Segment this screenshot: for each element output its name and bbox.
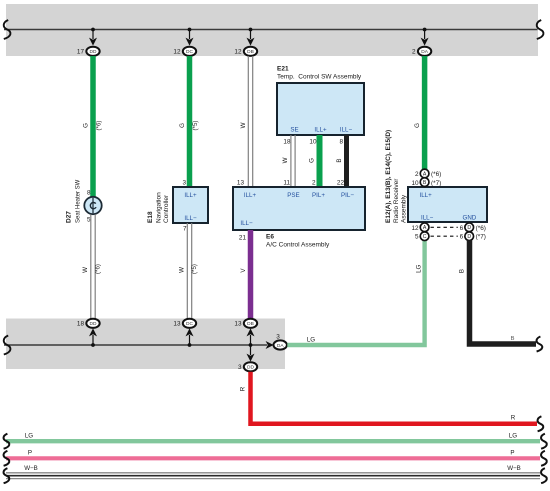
svg-text:18: 18 [77, 321, 85, 328]
connector 3 DD (bottom of band) [238, 362, 257, 371]
svg-text:ILL+: ILL+ [244, 192, 257, 199]
wire G from 12 DC to E18 pin 3 [187, 56, 193, 187]
svg-text:DD: DD [247, 365, 254, 371]
svg-text:G: G [179, 123, 186, 128]
svg-text:12: 12 [411, 225, 419, 232]
svg-text:13: 13 [237, 180, 245, 187]
svg-text:DA: DA [277, 343, 284, 349]
node junction dot tap1 [91, 28, 95, 32]
node junction dot lower tap2 [188, 343, 192, 347]
LG right break squiggle [541, 434, 547, 449]
svg-text:3: 3 [182, 180, 186, 187]
svg-text:Navigation: Navigation [156, 192, 163, 223]
svg-text:R: R [511, 415, 516, 422]
radio pin circle D (pin 6, *6) [460, 223, 486, 232]
bus wire P (bottom) [6, 456, 540, 460]
radio pin circle C (pin 5) [415, 232, 429, 241]
svg-text:DB: DB [247, 49, 254, 55]
wire B from radio GND to right [470, 240, 537, 344]
wire R right break squiggle [538, 416, 544, 431]
radio pin circle D (pin 6, *7) [460, 232, 486, 241]
tap4 arrow to connector [421, 30, 429, 46]
svg-text:5: 5 [415, 234, 419, 241]
svg-text:C: C [423, 234, 427, 240]
top bus left break squiggle [4, 20, 11, 39]
temp control switch assembly E21 [277, 66, 364, 136]
svg-text:ILL−: ILL− [240, 220, 253, 227]
svg-text:(*6): (*6) [476, 225, 486, 232]
svg-text:DA: DA [421, 49, 428, 55]
svg-text:(*7): (*7) [431, 180, 441, 187]
wire B right break squiggle [537, 337, 543, 352]
svg-text:(*5): (*5) [191, 264, 198, 274]
wire V from E6 pin 21 to 13 DB [248, 230, 254, 319]
svg-text:G: G [83, 123, 90, 128]
node junction dot lower tap1 [91, 343, 95, 347]
svg-text:DC: DC [186, 321, 193, 327]
P right break squiggle [541, 451, 547, 466]
svg-text:ILL+: ILL+ [184, 192, 197, 199]
svg-text:PSE: PSE [287, 192, 299, 199]
radio pin circle A (pin 12) [411, 223, 428, 232]
top bus line [4, 29, 538, 31]
svg-text:LG: LG [25, 433, 33, 440]
navigation controller E18 [173, 187, 208, 223]
radio pin circle A (pin 2) [415, 169, 441, 178]
lower bus right arrow to connector [266, 341, 274, 349]
connector 12 DB (top) [234, 47, 257, 56]
connector 13 DC (lower) [173, 319, 196, 328]
E18 ref label [147, 192, 170, 223]
svg-text:W: W [82, 267, 89, 273]
svg-text:D27: D27 [66, 211, 73, 223]
svg-text:17: 17 [77, 49, 85, 56]
tap3 arrow to connector [247, 30, 255, 46]
lower harness bus band [6, 319, 285, 370]
svg-text:18: 18 [283, 139, 291, 146]
A/C control assembly E6 [233, 187, 365, 230]
node junction dot lower tap3 [249, 343, 253, 347]
top bus right break squiggle [537, 20, 544, 39]
wire W from E21 SE to E6 PSE [291, 135, 295, 187]
svg-text:LG: LG [307, 337, 315, 344]
svg-text:11: 11 [283, 180, 290, 187]
svg-text:Controller: Controller [163, 194, 170, 223]
svg-text:G: G [309, 158, 316, 163]
svg-text:B: B [511, 336, 515, 342]
svg-text:DC: DC [186, 49, 193, 55]
lower bus line [4, 344, 267, 346]
svg-text:13: 13 [173, 321, 181, 328]
wire W from E18 pin 7 to 13 DC [187, 223, 191, 319]
E6 ref label [266, 234, 330, 249]
svg-text:DD: DD [90, 321, 97, 327]
wire LG from 3 DA to radio ILL- [287, 240, 424, 346]
svg-text:E6: E6 [266, 234, 274, 241]
dashed link ILL- to GND row1 [431, 226, 458, 228]
svg-text:G: G [414, 123, 421, 128]
svg-text:21: 21 [239, 235, 247, 242]
svg-text:R: R [240, 386, 247, 391]
svg-text:8: 8 [339, 139, 343, 146]
node junction dot tap4 [423, 28, 427, 32]
svg-text:Temp. Control SW Assembly: Temp. Control SW Assembly [277, 74, 362, 81]
radio ref label [385, 130, 408, 223]
bus wire LG (bottom) [6, 439, 540, 443]
svg-text:DB: DB [247, 321, 254, 327]
tap1 arrow to connector [89, 30, 97, 46]
svg-text:3: 3 [276, 334, 280, 341]
lower tap2 arrow to connector [186, 328, 194, 345]
svg-text:E12(A), E13(B), E14(C), E15(D): E12(A), E13(B), E14(C), E15(D) [385, 130, 392, 223]
W-B left break squiggle [4, 468, 10, 483]
radio pin circle B (pin 10) [411, 178, 441, 187]
lower bus left break squiggle [4, 336, 11, 355]
svg-text:ILL−: ILL− [340, 127, 353, 134]
svg-text:PIL+: PIL+ [312, 192, 325, 199]
wire G from 17 DD to D27 pin 8 [90, 56, 96, 197]
connector 3 DA (right of band) [274, 334, 287, 350]
svg-text:10: 10 [411, 180, 419, 187]
LG left break squiggle [4, 434, 10, 449]
svg-text:Assembly: Assembly [401, 194, 408, 223]
svg-text:13: 13 [234, 321, 242, 328]
connector 13 DB (lower) [234, 319, 257, 328]
svg-text:DD: DD [90, 49, 97, 55]
svg-text:22: 22 [337, 180, 345, 187]
svg-text:12: 12 [173, 49, 181, 56]
svg-text:W−B: W−B [24, 465, 38, 472]
svg-text:E18: E18 [147, 211, 154, 223]
seat heater switch D27 [84, 197, 101, 214]
wire G from E21 ILL+ to E6 PIL+ [317, 135, 323, 187]
node junction dot tap3 [249, 28, 253, 32]
svg-text:ILL+: ILL+ [314, 127, 327, 134]
svg-text:Seat Heater SW: Seat Heater SW [76, 179, 82, 223]
wire R from 3 DD to right edge [251, 372, 538, 424]
radio receiver assembly box [408, 187, 487, 222]
lower tap3 arrow down to connector [247, 345, 255, 362]
svg-text:A/C Control Assembly: A/C Control Assembly [266, 242, 330, 249]
wire G from 2 DA to radio ILL+ [422, 56, 428, 187]
svg-text:GND: GND [463, 215, 477, 222]
svg-text:D: D [467, 225, 471, 231]
svg-text:W: W [282, 157, 289, 163]
lower tap3 arrow up to connector [247, 328, 255, 345]
wire W from 12 DB to E6 pin 13 [248, 56, 252, 187]
W-B right break squiggle [541, 468, 547, 483]
svg-text:2: 2 [312, 180, 316, 187]
svg-text:E21: E21 [277, 66, 289, 73]
svg-text:LG: LG [509, 433, 517, 440]
svg-text:7: 7 [183, 226, 187, 233]
svg-text:V: V [240, 268, 247, 273]
wire W from D27 pin 5 to 18 DD [91, 214, 95, 318]
svg-text:PIL−: PIL− [341, 192, 354, 199]
dashed link ILL- to GND row2 [431, 235, 458, 237]
P left break squiggle [4, 451, 10, 466]
svg-text:P: P [28, 450, 32, 457]
svg-text:(*6): (*6) [431, 171, 441, 178]
svg-text:B: B [423, 180, 427, 186]
svg-text:A: A [423, 171, 427, 177]
svg-text:10: 10 [309, 139, 317, 146]
svg-text:W: W [240, 122, 247, 128]
svg-text:2: 2 [412, 49, 416, 56]
svg-text:3: 3 [238, 364, 242, 371]
svg-text:P: P [510, 450, 514, 457]
svg-text:B: B [459, 269, 466, 273]
bus wire W-B (bottom) [6, 473, 540, 479]
svg-text:(*5): (*5) [192, 121, 199, 131]
connector 2 DA (top) [412, 47, 431, 56]
top harness bus band [6, 4, 538, 56]
svg-text:2: 2 [415, 171, 419, 178]
svg-text:W−B: W−B [507, 465, 521, 472]
node junction dot tap2 [188, 28, 192, 32]
wire B from E21 ILL- to E6 PIL- [344, 135, 349, 187]
svg-text:LG: LG [416, 264, 423, 272]
svg-text:12: 12 [234, 49, 242, 56]
svg-text:6: 6 [460, 234, 464, 241]
connector 12 DC (top) [173, 47, 196, 56]
D27 ref label [66, 179, 82, 223]
svg-text:ILL+: ILL+ [420, 192, 433, 199]
svg-text:ILL−: ILL− [184, 215, 197, 222]
svg-text:(*7): (*7) [476, 234, 486, 241]
tap2 arrow to connector [186, 30, 194, 46]
svg-text:(*6): (*6) [96, 121, 103, 131]
svg-text:(*6): (*6) [95, 264, 102, 274]
connector 18 DD (lower) [77, 319, 100, 328]
svg-text:SE: SE [290, 127, 298, 134]
svg-text:B: B [336, 158, 343, 162]
connector 17 DD (top) [77, 47, 100, 56]
svg-text:D: D [467, 234, 471, 240]
svg-text:Radio Receiver: Radio Receiver [393, 178, 400, 223]
svg-text:6: 6 [460, 225, 464, 232]
svg-text:A: A [423, 225, 427, 231]
svg-text:ILL−: ILL− [421, 215, 434, 222]
lower tap1 arrow to connector [89, 328, 97, 345]
svg-text:8: 8 [87, 190, 91, 197]
svg-text:W: W [179, 267, 186, 273]
